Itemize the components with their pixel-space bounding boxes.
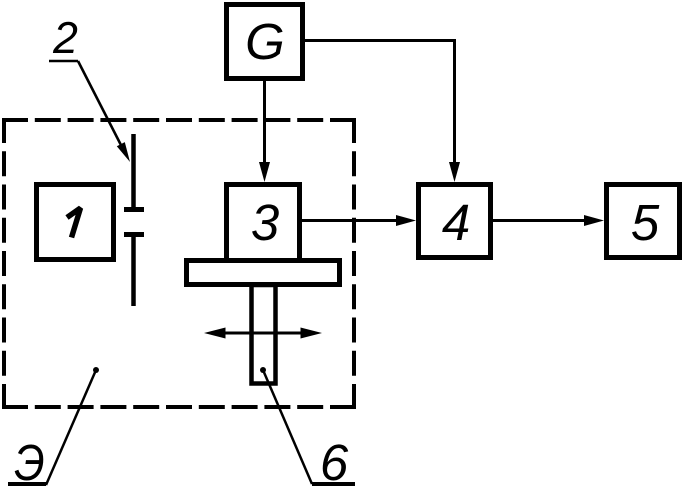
arrowhead into block 4 top (449, 162, 460, 182)
svg-text:G: G (245, 13, 285, 70)
block 4 (419, 185, 491, 258)
block 5 (607, 185, 680, 258)
rod below platform (252, 285, 276, 384)
dashed enclosure Э (top side) (2, 118, 356, 122)
capacitor top plate (124, 207, 144, 212)
dashed enclosure Э (left side) (2, 118, 6, 409)
block G (generator) (227, 5, 303, 79)
arrowhead into block 5 left (584, 215, 604, 226)
underline of label 2 (49, 60, 78, 63)
leader line to label Э (46, 370, 96, 485)
wire block 3 to block 4 (302, 219, 398, 222)
block 1 (37, 185, 114, 260)
leader dot inside enclosure (node for label Э) (93, 367, 99, 373)
leader dot on rod (node for label 6) (260, 367, 266, 373)
arrowhead into block 3 top (259, 162, 270, 182)
wire G right to corner then down to block 4 (305, 41, 455, 165)
svg-text:2: 2 (52, 14, 78, 63)
arrowhead of leader 2 (117, 142, 130, 162)
svg-text:5: 5 (631, 194, 660, 251)
double-headed motion arrow (222, 332, 304, 335)
wire block 4 to block 5 (493, 219, 586, 222)
svg-text:3: 3 (251, 194, 279, 251)
leader line to label 6 (263, 370, 312, 484)
svg-text:4: 4 (442, 194, 470, 251)
leader line from label 2 (78, 61, 124, 151)
dashed enclosure Э (bottom side) (2, 405, 356, 409)
svg-text:6: 6 (320, 434, 349, 488)
platform bar under block 3 (187, 261, 340, 285)
block 3 (227, 185, 300, 261)
capacitor top lead wire (131, 134, 136, 207)
underline of label 6 (312, 482, 355, 486)
capacitor bottom plate (124, 232, 144, 237)
arrowhead into block 4 left (396, 215, 416, 226)
capacitor bottom lead wire (131, 237, 136, 306)
svg-text:Э: Э (14, 435, 44, 488)
wire G bottom down to block 3 (263, 81, 266, 164)
dashed enclosure Э (right side) (352, 118, 356, 409)
underline of label Э (8, 482, 46, 486)
